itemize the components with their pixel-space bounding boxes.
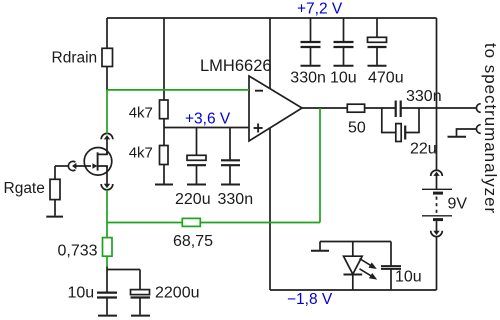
wire green feedback horizontal left	[107, 222, 182, 224]
svg-text:LMH6626: LMH6626	[200, 57, 272, 75]
wire op-amp output to 50 ohm resistor	[302, 107, 347, 109]
capacitor C 10u supply	[334, 41, 354, 43]
wire 10u source cap top lead	[106, 270, 108, 293]
svg-text:4k7: 4k7	[129, 145, 153, 162]
svg-text:220u: 220u	[175, 191, 211, 208]
svg-text:330n: 330n	[218, 191, 254, 208]
capacitor C 10u LED	[381, 265, 401, 267]
resistor 50	[347, 104, 364, 112]
ground 330n	[221, 184, 240, 186]
svg-text:Rgate: Rgate	[4, 180, 45, 197]
wire Rgate bottom lead	[54, 200, 56, 216]
wire Rgate gate lead with socket	[55, 165, 69, 167]
capacitor C 330n output coupling	[395, 101, 397, 118]
wire right rail upper (battery + to top rail)	[436, 18, 438, 170]
capacitor C 330n supply	[301, 41, 321, 43]
transistor Q1 channel bar	[97, 152, 99, 170]
transistor Q1 drain tap	[98, 152, 107, 154]
wire 2200u top lead	[139, 270, 141, 290]
ground connector shield	[448, 136, 467, 138]
op-amp plus sign	[254, 127, 263, 129]
wire 220u bottom lead	[196, 165, 198, 183]
wire +3.6V node to op-amp + input	[164, 127, 249, 129]
wire 330n output to connector	[401, 107, 477, 109]
wire green source to 0,733	[106, 223, 108, 238]
wire between 4k7 resistors	[163, 119, 165, 146]
capacitor C 22u electrolytic output	[396, 124, 401, 142]
wire green feedback horizontal right	[200, 222, 320, 224]
battery 9V plug arrow bottom	[436, 221, 438, 233]
svg-text:10u: 10u	[68, 285, 95, 302]
wire 220u top lead	[196, 128, 198, 156]
wire 10u supply bottom lead	[343, 47, 345, 65]
svg-text:4k7: 4k7	[129, 105, 153, 122]
resistor Rdrain	[102, 48, 113, 66]
wire green source down to feedback node	[106, 190, 108, 223]
svg-text:9V: 9V	[448, 196, 468, 213]
wire op-amp V+ supply pin	[269, 18, 271, 89]
capacitor C 470u electrolytic supply	[368, 37, 387, 42]
wire 10u LED cap top lead	[390, 242, 392, 267]
wire LED ground stub	[319, 242, 321, 250]
battery 9V dashed middle	[436, 197, 438, 214]
svg-text:330n: 330n	[290, 69, 326, 86]
resistor 0,733 source	[103, 238, 113, 257]
source plug socket	[101, 184, 113, 190]
transistor Q1 body	[84, 148, 112, 176]
ground 330n supply	[301, 65, 321, 67]
battery 9V cell 2	[422, 215, 452, 217]
wire 4k7 divider branch from top rail	[163, 18, 165, 100]
ground 220u	[187, 184, 206, 186]
wire Rdrain top lead	[106, 18, 108, 49]
gate plug arrow	[75, 165, 92, 167]
op-amp minus sign	[255, 90, 263, 92]
transistor Q1 source tap	[98, 166, 107, 168]
wire right rail lower (battery - to bottom rail)	[436, 237, 438, 290]
capacitor C 10u source	[97, 292, 117, 294]
ground 4k7 divider	[155, 184, 173, 186]
ground LED anode	[311, 250, 329, 252]
ground 10u source	[98, 315, 117, 317]
wire 10u LED bottom lead	[390, 269, 392, 290]
capacitor C 220u electrolytic	[187, 155, 206, 160]
diode LED	[344, 256, 363, 274]
svg-text:10u: 10u	[395, 269, 422, 286]
wire Rgate top lead	[54, 166, 56, 179]
transistor Q1 gate arrow	[92, 163, 97, 168]
svg-text:2200u: 2200u	[155, 285, 200, 302]
wire drain lead with plug arrow	[106, 137, 108, 154]
wire source lead with plug arrow	[106, 166, 108, 186]
ground 470u supply	[368, 65, 387, 67]
resistor Rgate	[50, 179, 60, 199]
wire shield to ground	[457, 129, 477, 136]
ground 10u supply	[334, 65, 354, 67]
svg-text:10u: 10u	[330, 69, 357, 86]
wire 22u back up to output	[405, 108, 419, 133]
op-amp U1 LMH6626	[249, 76, 302, 141]
wire Rdrain bottom lead to drain node	[106, 67, 108, 90]
resistor 68,75 feedback	[182, 218, 200, 226]
svg-text:330n: 330n	[406, 88, 442, 105]
battery 9V plug socket top	[431, 170, 443, 176]
svg-text:0,733: 0,733	[58, 243, 98, 260]
resistor 4k7 lower	[160, 146, 169, 165]
drain plug socket	[101, 133, 113, 139]
wire 10u supply cap top lead	[343, 18, 345, 42]
battery 9V cell 1	[422, 188, 452, 190]
wire 2200u bottom lead	[139, 298, 141, 315]
wire 10u source bottom lead	[106, 298, 108, 315]
svg-text:−1,8 V: −1,8 V	[287, 291, 333, 308]
wire op-amp V- supply pin	[269, 128, 271, 290]
LED light arrows	[360, 259, 378, 280]
wire 330n supply bottom lead	[310, 47, 312, 65]
wire green feedback vertical from output	[319, 108, 321, 223]
ground Rgate	[46, 216, 63, 218]
wire 330n bottom lead	[229, 165, 231, 183]
wire 470u supply cap top lead	[376, 18, 378, 37]
svg-text:68,75: 68,75	[173, 233, 213, 250]
svg-text:50: 50	[348, 120, 366, 137]
wire branch down to 22u	[382, 108, 396, 133]
wire top +7.2V rail	[107, 17, 437, 19]
svg-text:470u: 470u	[368, 69, 404, 86]
connector signal socket to spectrumanalyzer	[476, 104, 480, 113]
wire 50 ohm to output coupling node	[365, 107, 396, 109]
svg-text:+7,2 V: +7,2 V	[297, 1, 343, 18]
wire bottom -1.8V rail	[270, 289, 437, 291]
wire LED top (anode) rail	[320, 241, 391, 243]
battery 9V plug arrow top	[436, 174, 438, 190]
svg-text:Rdrain: Rdrain	[52, 50, 98, 67]
ground 2200u	[131, 315, 150, 317]
wire LED anode lead	[352, 242, 354, 257]
wire 330n supply cap top lead	[310, 18, 312, 42]
wire 470u supply bottom lead	[376, 47, 378, 65]
connector shield socket	[476, 125, 480, 134]
resistor 4k7 upper	[160, 100, 169, 119]
wire green 0,733 to cap node	[106, 256, 108, 267]
battery 9V plug socket bottom	[431, 231, 443, 237]
wire LED cathode lead	[352, 275, 354, 291]
wire 4k7 lower to ground	[163, 165, 165, 184]
gate plug socket	[68, 161, 75, 170]
wire green drain node to op-amp minus input	[107, 89, 249, 91]
capacitor C 2200u electrolytic	[131, 290, 150, 295]
wire green drain node down to transistor	[106, 90, 108, 134]
svg-text:to spectrumanalyzer: to spectrumanalyzer	[481, 43, 500, 214]
capacitor C 330n input filter	[221, 159, 240, 161]
bottom-left node split	[106, 266, 108, 270]
svg-text:22u: 22u	[410, 141, 437, 158]
svg-text:+3,6 V: +3,6 V	[185, 111, 231, 128]
wire 330n (input filter) top lead	[229, 128, 231, 161]
